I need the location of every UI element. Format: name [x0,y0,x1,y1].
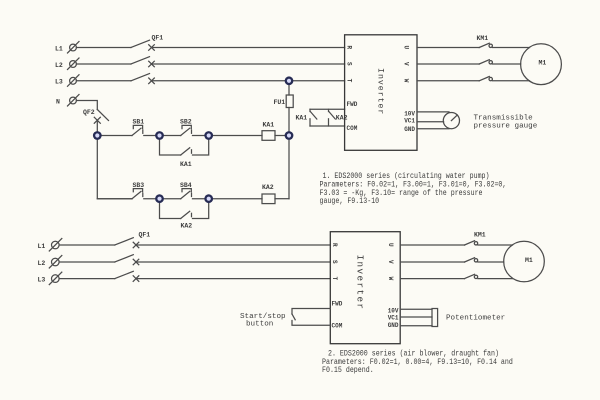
contactor KM1 (circuit 2) pole 1 [465,241,478,245]
terminal L3 (circuit 2) [49,272,62,285]
svg-text:pressure gauge: pressure gauge [474,123,538,131]
wire KM1 to motor (V) [493,63,521,65]
svg-text:SB1: SB1 [133,119,145,126]
coil KA1 [262,131,275,141]
motor M1 (circuit 2) [504,241,545,282]
svg-text:N: N [56,98,60,105]
node rung1 after SB1 [155,131,164,140]
terminal L2 [68,58,80,70]
contactor KM1 (circuit 2) pole 3 [465,274,478,278]
svg-text:L3: L3 [38,277,46,284]
svg-text:U: U [387,243,394,247]
contactor KM1 (circuit 2) pole 2 [465,258,478,262]
label Start/stop button [240,313,286,328]
label Transmissible pressure gauge [474,115,538,131]
wire GND to gauge [417,128,449,130]
svg-text:10V: 10V [388,308,399,315]
svg-text:T: T [346,79,353,83]
svg-text:V: V [403,62,410,66]
wire W to KM1 (circuit 2) [400,278,464,280]
contact block top wire (FWD) [310,108,345,110]
svg-text:KA2: KA2 [181,222,193,229]
node rung2 after SB4 [204,194,213,203]
svg-text:KA1: KA1 [180,161,192,168]
svg-text:GND: GND [388,322,399,329]
wire SB4 to node [193,198,209,200]
contactor KM1 pole 1 [479,43,492,47]
wire node to coil KA2 [209,198,262,200]
svg-text:KA1: KA1 [296,114,308,121]
pressure gauge [443,113,459,129]
wire QF1 to T (circuit 2) [136,278,330,280]
breaker QF1 (circuit 2) pole 1 [115,238,139,248]
svg-text:L1: L1 [55,45,63,52]
svg-text:Potentiometer: Potentiometer [446,315,505,323]
note 2 EDS2000 text [322,350,513,375]
pushbutton SB3 [132,189,143,199]
node left rail rung1 [93,131,102,140]
svg-text:S: S [331,260,338,264]
terminal N [68,95,80,107]
terminal L1 [68,42,80,54]
inverter U2 box [330,232,400,344]
svg-text:T: T [331,277,338,281]
terminal L2 (circuit 2) [49,256,62,269]
svg-text:button: button [246,320,273,328]
wire QF1 to S (circuit 2) [136,261,330,263]
wire SB1 to node [144,135,160,137]
wire rung1 left [97,135,132,137]
wire QF1 to S [152,63,345,65]
svg-text:R: R [331,243,338,247]
wire coil KA2 to rail [275,198,289,200]
contact KA1 parallel branch [160,136,209,156]
wire L3 to QF1 [76,80,131,82]
svg-text:SB2: SB2 [180,119,192,126]
motor M1 [521,44,562,85]
wire QF1 to R (circuit 2) [136,244,330,246]
wire SB3 to node [144,198,160,200]
svg-text:U: U [403,46,410,50]
wire U to KM1 (circuit 2) [400,244,464,246]
svg-text:KA2: KA2 [336,114,348,121]
svg-text:L3: L3 [55,79,63,86]
node L3 FU1 tap [285,76,294,85]
breaker QF1 pole 3 [131,74,154,84]
svg-text:F0.15 depend.: F0.15 depend. [322,366,374,375]
svg-text:KA1: KA1 [263,122,275,129]
wire GND to potentiometer [400,325,432,327]
wire rung2 left to SB3 (rail corner) [97,198,132,200]
svg-text:V: V [387,260,394,264]
wire VC1 to gauge [417,121,444,123]
svg-text:KA2: KA2 [262,184,274,191]
wire FU1 down right rail [288,108,290,199]
wire U to KM1 [417,47,479,49]
svg-text:M1: M1 [539,59,547,66]
svg-text:R: R [346,46,353,50]
inverter U1 box [345,35,417,151]
pushbutton SB2 [181,125,192,135]
fuse FU1 [286,95,293,108]
contactor KM1 pole 3 [479,77,492,81]
wire N to QF2 [76,101,97,110]
svg-text:10V: 10V [404,110,415,117]
svg-text:SB3: SB3 [133,182,145,189]
note 1 EDS2000 text [320,173,507,207]
svg-text:Transmissible: Transmissible [474,115,534,123]
svg-text:L1: L1 [38,243,46,250]
svg-text:QF2: QF2 [83,109,95,116]
start/stop button wires [292,309,330,326]
svg-text:QF1: QF1 [152,35,164,42]
svg-text:COM: COM [347,125,358,132]
svg-text:KM1: KM1 [477,35,489,42]
contactor KM1 pole 2 [479,60,492,64]
wire SB2 to node [193,135,209,137]
contact KA2 (FWD branch) [329,109,336,126]
svg-text:COM: COM [332,322,343,329]
wire 10V to potentiometer [400,308,432,310]
wire W to KM1 [417,80,479,82]
wire L3 to QF1 (circuit 2) [59,278,115,280]
wire V to KM1 (circuit 2) [400,261,464,263]
svg-text:SB4: SB4 [180,182,192,189]
wire L1 to QF1 (circuit 2) [59,244,115,246]
terminal L3 [68,75,80,87]
svg-text:W: W [403,79,410,83]
svg-text:S: S [346,62,353,66]
wire V to KM1 [417,63,479,65]
contact KA2 parallel branch [160,199,209,219]
contact KA1 (FWD branch) [310,109,317,126]
wire QF1 to T [152,80,345,82]
svg-text:Inverter: Inverter [376,68,385,115]
svg-text:Inverter: Inverter [355,255,366,311]
wire 10V to gauge [417,111,449,113]
wire coil KA1 to rail [275,135,289,137]
breaker QF1 pole 1 [131,40,154,50]
breaker QF1 (circuit 2) pole 2 [115,255,139,265]
svg-text:GND: GND [404,126,415,133]
wire KM1 to motor (W) [493,80,530,82]
breaker QF1 (circuit 2) pole 3 [115,271,139,281]
wire L2 to QF1 (circuit 2) [59,261,115,263]
wire QF2 down left rail to rung2 [97,121,132,199]
terminal L1 (circuit 2) [49,239,62,252]
wire KM1 to motor V (circuit 2) [478,261,504,263]
coil KA2 [262,194,275,204]
svg-text:L2: L2 [55,62,63,69]
pushbutton SB4 [181,189,192,199]
wire KM1 to motor W (circuit 2) [478,278,513,280]
pushbutton SB1 [132,125,143,135]
svg-text:FU1: FU1 [274,99,286,106]
breaker QF2 [94,110,108,124]
wire L2 to QF1 [76,63,131,65]
wire KM1 to motor U (circuit 2) [478,244,513,246]
wire L1 to QF1 [76,47,131,49]
node rung2 after SB3 [155,194,164,203]
node right rail rung1 [285,131,294,140]
svg-text:gauge, F9.13-10: gauge, F9.13-10 [320,198,380,207]
wire node to SB4 [160,198,181,200]
breaker QF1 pole 2 [131,57,154,67]
wire KM1 to motor (U) [493,47,530,49]
svg-text:M1: M1 [525,257,533,264]
svg-text:FWD: FWD [332,301,343,308]
svg-text:L2: L2 [38,260,46,267]
wire node to coil KA1 [209,135,262,137]
potentiometer RP1 [432,309,438,327]
svg-text:QF1: QF1 [139,231,151,238]
svg-text:VC1: VC1 [388,315,399,322]
svg-text:KM1: KM1 [474,232,486,239]
contact block bottom wire (COM) [310,125,345,127]
wire QF1 to R [152,47,345,49]
wire L3 node to FU1 [288,81,290,95]
svg-text:W: W [387,277,394,281]
wire VC1 to potentiometer [400,316,432,318]
svg-text:FWD: FWD [347,101,358,108]
svg-text:VC1: VC1 [404,118,415,125]
wire node to SB2 [160,135,181,137]
node rung1 after SB2 [204,131,213,140]
